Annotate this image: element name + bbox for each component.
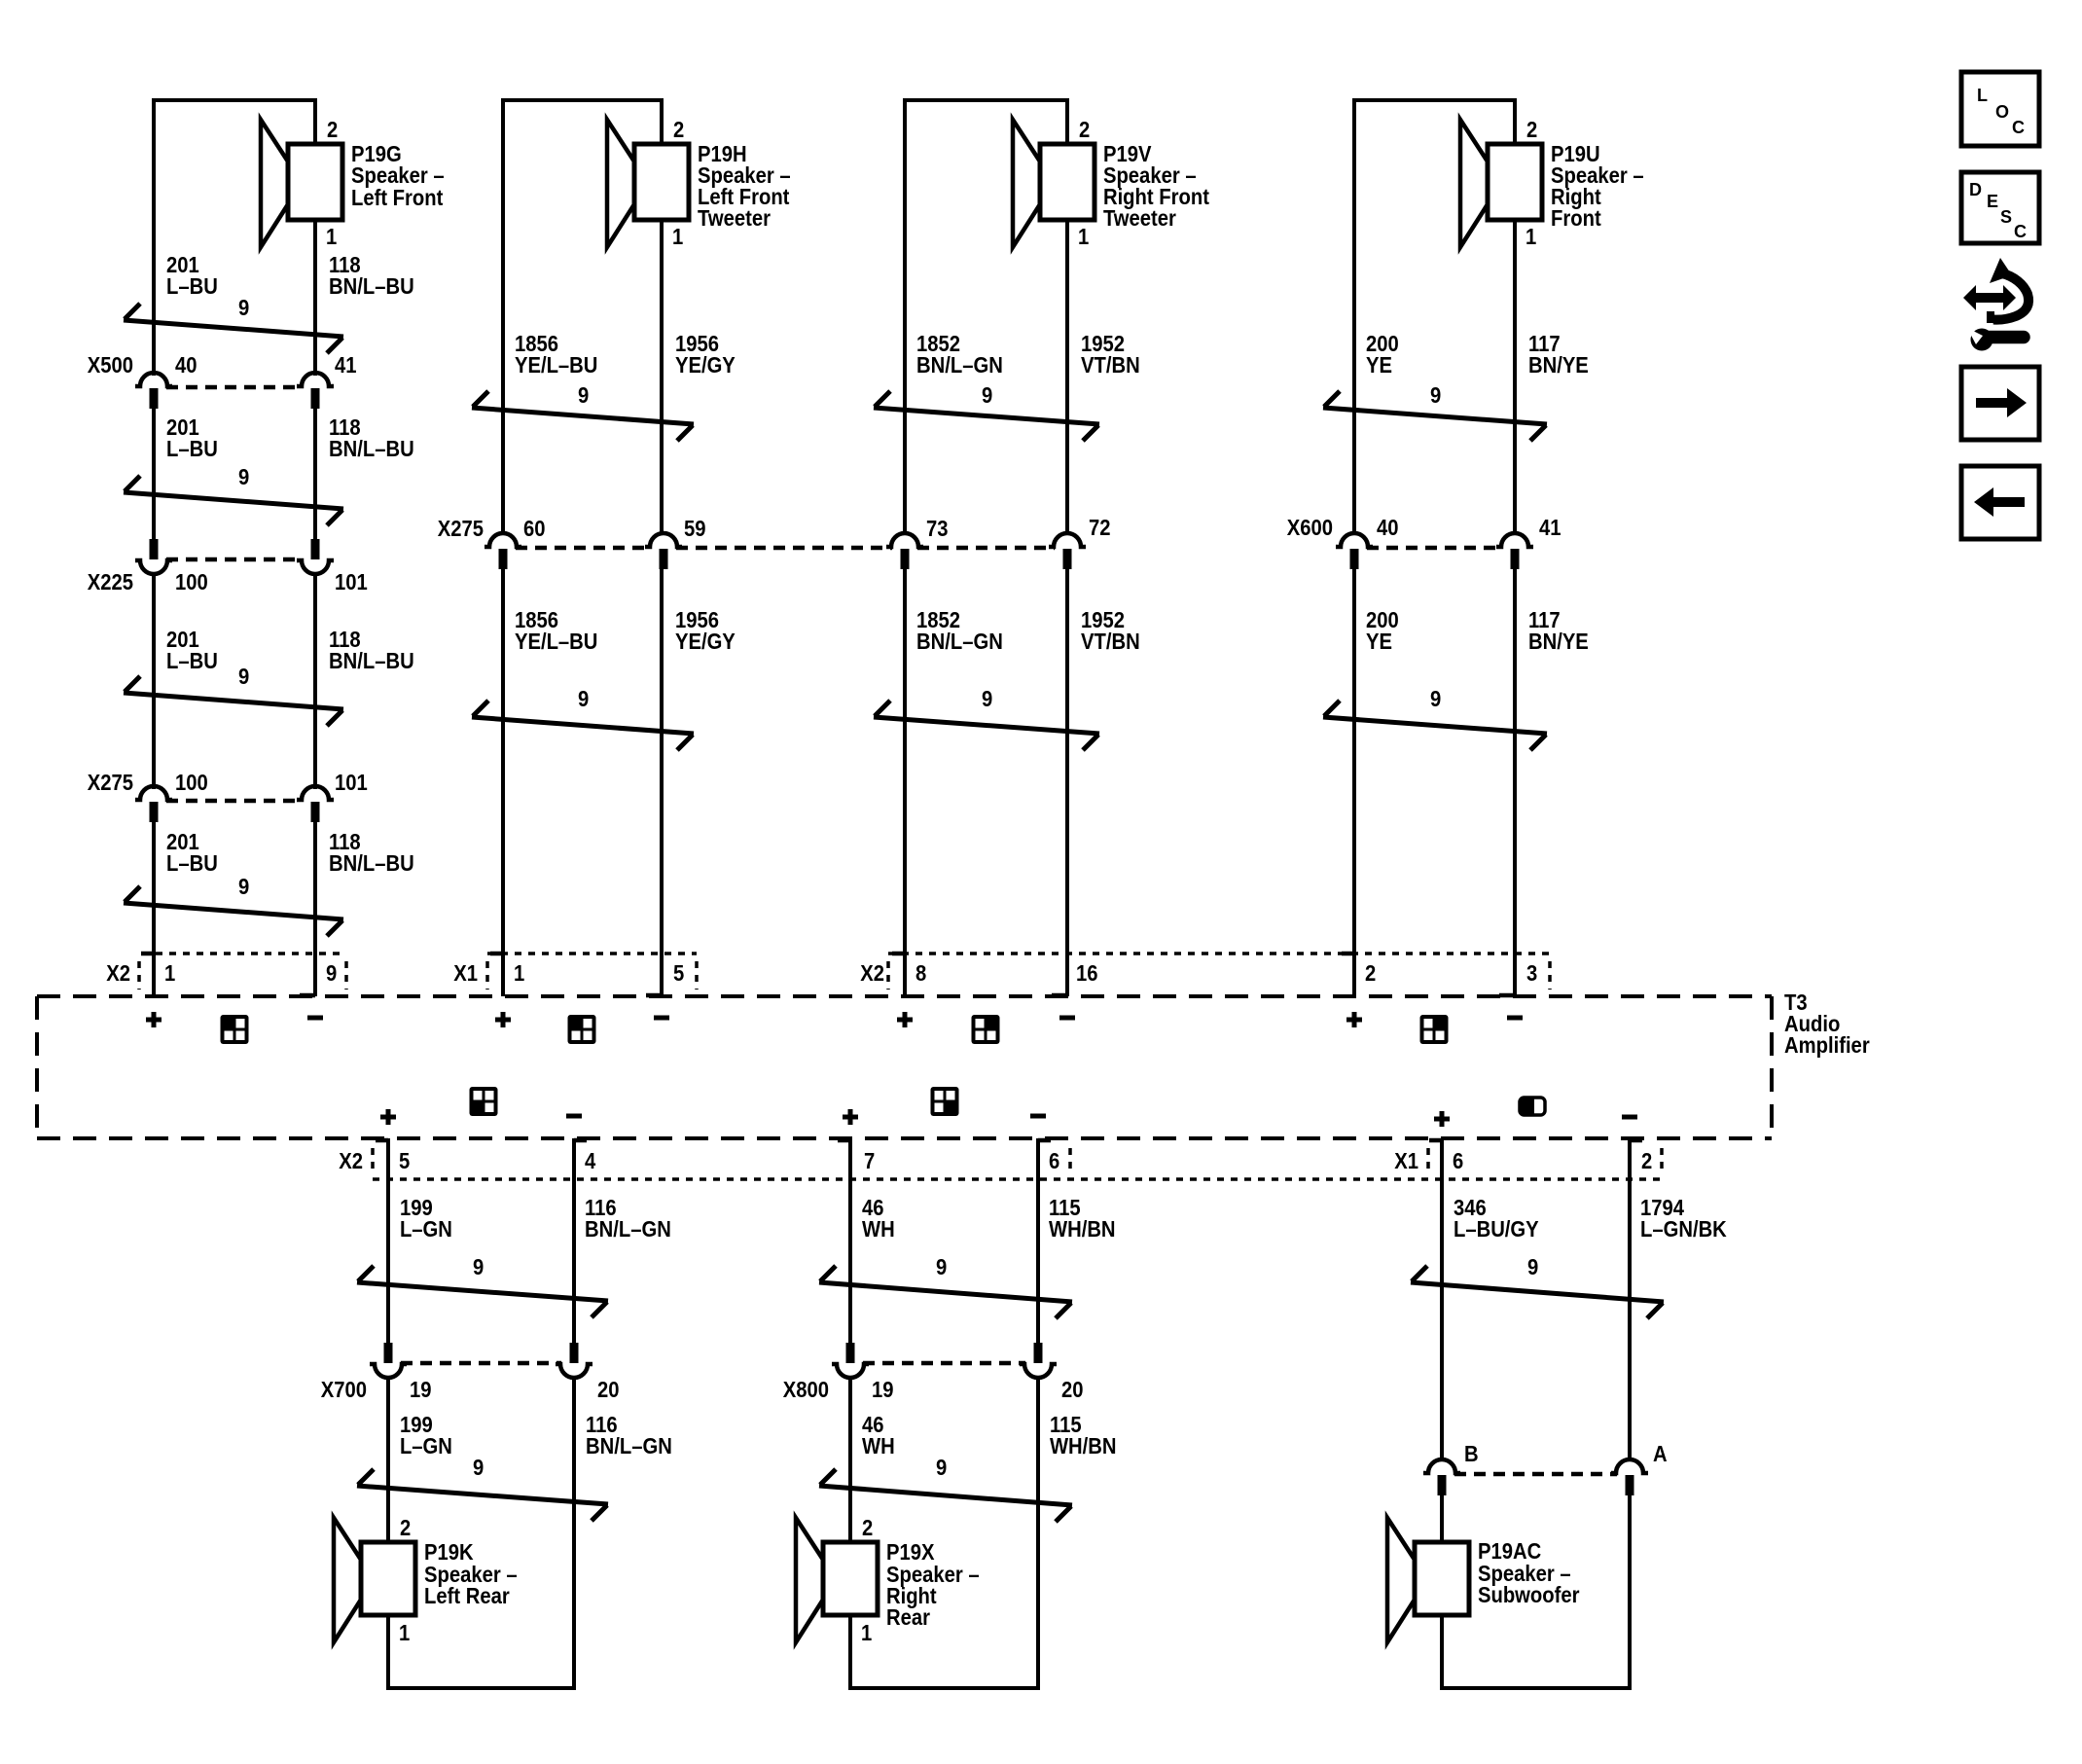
svg-text:6: 6 <box>1453 1148 1463 1174</box>
svg-text:1: 1 <box>164 960 175 987</box>
svg-text:C: C <box>2012 118 2025 137</box>
svg-text:BN/YE: BN/YE <box>1528 352 1589 378</box>
wire to amplifier + <box>1352 569 1356 996</box>
svg-text:9: 9 <box>936 1254 947 1280</box>
svg-text:9: 9 <box>473 1455 484 1481</box>
amplifier output + terminal <box>495 1012 511 1027</box>
svg-text:L–GN: L–GN <box>400 1433 452 1459</box>
wire bottom return <box>848 1686 1040 1690</box>
svg-text:1: 1 <box>672 224 683 250</box>
svg-text:1: 1 <box>514 960 524 987</box>
wire P19G into pin 2 <box>313 98 317 146</box>
svg-text:9: 9 <box>1430 686 1441 712</box>
svg-text:9: 9 <box>1527 1254 1538 1280</box>
speaker position icon right rear <box>931 1087 959 1116</box>
amplifier output - terminal <box>307 1016 323 1021</box>
svg-text:X700: X700 <box>321 1377 367 1403</box>
svg-text:YE/GY: YE/GY <box>675 352 736 378</box>
wire to amplifier - <box>1513 569 1517 996</box>
connector X500 female pin 41 <box>297 373 334 386</box>
svg-text:X1: X1 <box>453 960 478 987</box>
wire to amplifier - <box>1065 569 1069 996</box>
svg-text:L–BU/GY: L–BU/GY <box>1454 1216 1539 1242</box>
label P19X name <box>886 1539 980 1631</box>
svg-text:X800: X800 <box>783 1377 829 1403</box>
wire return <box>1036 1377 1040 1690</box>
legend DESC box <box>1961 172 2039 243</box>
svg-text:WH/BN: WH/BN <box>1049 1216 1116 1242</box>
svg-text:Left Front: Left Front <box>351 185 443 211</box>
connector X275 male pin 72 <box>1063 549 1072 569</box>
svg-text:9: 9 <box>326 960 337 987</box>
amplifier output - terminal <box>1507 1016 1523 1021</box>
audio amplifier T3 dashed box <box>37 996 1772 1138</box>
svg-text:BN/L–BU: BN/L–BU <box>329 273 414 300</box>
label P19H name <box>698 141 791 232</box>
wire 201 seg4 <box>152 822 156 996</box>
svg-text:1: 1 <box>1078 224 1089 250</box>
svg-text:9: 9 <box>578 382 589 409</box>
speaker position icon <box>972 1015 1000 1044</box>
legend back arrow box <box>1961 466 2039 539</box>
legend repair icon (double arrow and wrench) <box>1963 258 2028 351</box>
connector X275 female pin 60 <box>485 533 521 547</box>
svg-text:BN/L–GN: BN/L–GN <box>916 629 1003 655</box>
speaker P19H <box>607 120 689 247</box>
svg-text:X2: X2 <box>339 1148 363 1174</box>
connector X275 female pin 59 <box>645 533 682 547</box>
connector X275 female pin 101 <box>297 786 334 800</box>
speaker position icon <box>1420 1015 1449 1044</box>
wire 118 seg2 <box>313 409 317 539</box>
svg-text:E: E <box>1987 192 1998 211</box>
wire 1794 from amp <box>1628 1138 1632 1461</box>
wire top loop P19U <box>1352 98 1517 102</box>
wire return subwoofer <box>1628 1495 1632 1689</box>
speaker P19X <box>796 1518 878 1642</box>
connector X500 <box>166 385 303 390</box>
svg-text:41: 41 <box>1539 515 1561 541</box>
harness routing slash 9 <box>874 391 1099 441</box>
connector X275 <box>166 799 303 804</box>
harness routing slash 9 <box>124 676 343 726</box>
connector X275 male pin 73 <box>901 549 910 569</box>
svg-text:L: L <box>1977 86 1988 105</box>
svg-text:S: S <box>2000 207 2012 227</box>
svg-text:3: 3 <box>1526 960 1537 987</box>
connector X275 male pin 101 <box>311 802 320 822</box>
svg-text:9: 9 <box>578 686 589 712</box>
svg-text:BN/YE: BN/YE <box>1528 629 1589 655</box>
harness routing slash 9 <box>819 1266 1072 1318</box>
wire 118 seg3 <box>313 573 317 789</box>
amplifier top connector label boxes <box>139 954 1550 990</box>
svg-text:9: 9 <box>238 874 249 900</box>
wire bottom return <box>1440 1686 1632 1690</box>
svg-text:BN/L–GN: BN/L–GN <box>916 352 1003 378</box>
amplifier output + terminal <box>843 1109 858 1125</box>
harness routing slash 9 <box>472 391 694 441</box>
svg-text:Rear: Rear <box>886 1604 931 1631</box>
wire P19V pin2 side upper <box>903 98 907 535</box>
amplifier output - terminal <box>566 1114 582 1119</box>
svg-text:L–BU: L–BU <box>166 436 218 462</box>
connector X500 female pin 40 <box>135 373 172 386</box>
wire 201 seg2 <box>152 409 156 539</box>
wire from amp + output <box>848 1138 852 1343</box>
svg-text:1: 1 <box>399 1620 410 1646</box>
connector X225 <box>166 558 303 562</box>
svg-text:X225: X225 <box>88 569 133 595</box>
connector X600 male pin 40 <box>1350 549 1359 569</box>
speaker P19K <box>334 1518 415 1642</box>
connector B/A dashed link <box>1454 1472 1617 1477</box>
amplifier output - terminal <box>1030 1114 1046 1119</box>
svg-text:2: 2 <box>1641 1148 1652 1174</box>
speaker position icon <box>568 1015 596 1044</box>
wire P19H pin2 side upper <box>501 98 505 535</box>
harness routing slash 9 <box>357 1469 608 1521</box>
connector X275 row 2 dashed link <box>516 546 1055 551</box>
svg-text:9: 9 <box>238 295 249 321</box>
speaker position icon <box>221 1015 249 1044</box>
svg-text:100: 100 <box>175 569 208 595</box>
svg-text:2: 2 <box>673 117 684 143</box>
harness routing slash 9 <box>1323 391 1547 441</box>
svg-text:X275: X275 <box>438 516 484 542</box>
svg-text:VT/BN: VT/BN <box>1081 629 1140 655</box>
connector X275 male pin 59 <box>660 549 668 569</box>
connector X600 dashed link <box>1367 546 1502 551</box>
amplifier output - terminal <box>1622 1115 1637 1120</box>
svg-text:YE/GY: YE/GY <box>675 629 736 655</box>
svg-text:Tweeter: Tweeter <box>1103 205 1176 232</box>
label P19V name <box>1103 141 1209 232</box>
wire speaker pin 1 down <box>386 1616 390 1690</box>
svg-text:6: 6 <box>1049 1148 1059 1174</box>
harness routing slash 9 <box>124 476 343 525</box>
connector X600 female pin 41 <box>1496 533 1533 547</box>
amplifier output - terminal <box>1059 1016 1075 1021</box>
speaker P19V <box>1013 120 1095 247</box>
wire 346 from amp <box>1440 1138 1444 1461</box>
svg-text:20: 20 <box>597 1377 620 1403</box>
svg-text:X275: X275 <box>88 770 133 796</box>
connector X275 male pin 100 <box>150 802 159 822</box>
svg-text:1: 1 <box>861 1620 872 1646</box>
connector X275 female pin 100 <box>135 786 172 800</box>
connector X225 male pin 100 <box>150 539 159 559</box>
connector X700 male pin 19 <box>384 1343 393 1363</box>
svg-text:YE/L–BU: YE/L–BU <box>515 629 597 655</box>
connector X600 female pin 40 <box>1336 533 1373 547</box>
wire speaker pin 1 down <box>848 1616 852 1690</box>
svg-text:5: 5 <box>673 960 684 987</box>
label P19K name <box>424 1539 518 1609</box>
wire to speaker pin 2 <box>848 1377 852 1544</box>
connector X800 male pin 20 <box>1034 1343 1043 1363</box>
svg-text:O: O <box>1995 102 2009 122</box>
amplifier output + terminal <box>897 1012 913 1027</box>
connector X225 female pin 100 <box>135 560 172 574</box>
svg-text:L–BU: L–BU <box>166 850 218 877</box>
svg-text:WH: WH <box>862 1433 895 1459</box>
wire top loop P19H <box>501 98 664 102</box>
amplifier output - terminal <box>654 1016 669 1021</box>
wire from amp - output <box>572 1138 576 1343</box>
svg-text:101: 101 <box>335 770 368 796</box>
connector X275 male pin 60 <box>499 549 508 569</box>
wire to amplifier + <box>903 569 907 996</box>
connector female pin B <box>1423 1459 1460 1473</box>
svg-text:Tweeter: Tweeter <box>698 205 771 232</box>
wire to amplifier - <box>660 569 664 996</box>
speaker position icon left rear <box>470 1087 498 1116</box>
svg-text:1: 1 <box>1526 224 1536 250</box>
connector X800 female pin 19 <box>832 1364 869 1378</box>
speaker P19AC <box>1387 1518 1469 1642</box>
wire from amp - output <box>1036 1138 1040 1343</box>
svg-text:9: 9 <box>238 464 249 490</box>
harness routing slash 9 <box>124 304 343 353</box>
svg-text:1: 1 <box>326 224 337 250</box>
svg-text:2: 2 <box>1079 117 1090 143</box>
svg-text:X600: X600 <box>1287 515 1333 541</box>
wire 118 seg4 <box>313 822 317 996</box>
connector male pin A <box>1626 1475 1634 1495</box>
wire 201 seg3 <box>152 573 156 789</box>
svg-text:VT/BN: VT/BN <box>1081 352 1140 378</box>
connector X500 male pin 40 <box>150 388 159 409</box>
harness routing slash 9 <box>472 701 694 750</box>
harness routing slash 9 <box>819 1469 1072 1522</box>
connector X225 male pin 101 <box>311 539 320 559</box>
svg-text:16: 16 <box>1076 960 1098 987</box>
svg-text:59: 59 <box>684 516 706 542</box>
svg-text:L–BU: L–BU <box>166 273 218 300</box>
svg-text:Left Rear: Left Rear <box>424 1583 510 1609</box>
svg-text:40: 40 <box>1377 515 1399 541</box>
label P19G name <box>351 141 445 211</box>
svg-text:73: 73 <box>926 516 949 542</box>
harness routing slash 9 <box>1323 701 1547 750</box>
connector X700 female pin 20 <box>556 1364 592 1378</box>
wire return <box>572 1377 576 1690</box>
svg-text:9: 9 <box>238 664 249 690</box>
amplifier output + terminal <box>380 1109 396 1125</box>
wire from amp + output <box>386 1138 390 1343</box>
svg-text:60: 60 <box>523 516 546 542</box>
amplifier output + terminal <box>146 1012 162 1027</box>
connector X600 male pin 41 <box>1511 549 1520 569</box>
wire P19V into pin 2 <box>1065 98 1069 146</box>
svg-text:BN/L–GN: BN/L–GN <box>585 1216 671 1242</box>
svg-text:B: B <box>1464 1441 1479 1467</box>
svg-text:40: 40 <box>175 352 197 378</box>
svg-text:5: 5 <box>399 1148 410 1174</box>
subwoofer icon <box>1520 1098 1545 1115</box>
wire top loop P19G <box>152 98 317 102</box>
wire 118 upper <box>313 220 317 376</box>
harness routing slash 9 <box>124 886 343 936</box>
legend LOC box <box>1961 72 2039 146</box>
svg-text:2: 2 <box>1365 960 1376 987</box>
svg-text:Front: Front <box>1551 205 1601 232</box>
wire to subwoofer <box>1440 1495 1444 1545</box>
svg-text:X2: X2 <box>106 960 130 987</box>
svg-text:X500: X500 <box>88 352 133 378</box>
wire speaker minus upper <box>1513 220 1517 534</box>
svg-text:WH/BN: WH/BN <box>1050 1433 1117 1459</box>
wire speaker minus upper <box>660 220 664 534</box>
wire to speaker pin 2 <box>386 1377 390 1544</box>
svg-text:L–GN: L–GN <box>400 1216 452 1242</box>
svg-text:WH: WH <box>862 1216 895 1242</box>
svg-text:BN/L–BU: BN/L–BU <box>329 648 414 674</box>
svg-text:100: 100 <box>175 770 208 796</box>
connector X225 female pin 101 <box>297 560 334 574</box>
wire speaker minus upper <box>1065 220 1069 534</box>
svg-text:19: 19 <box>872 1377 894 1403</box>
connector X275 female pin 73 <box>886 533 923 547</box>
connector male pin B <box>1438 1475 1447 1495</box>
svg-text:X1: X1 <box>1394 1148 1418 1174</box>
connector female pin A <box>1611 1459 1648 1473</box>
svg-text:2: 2 <box>1526 117 1537 143</box>
svg-text:L–BU: L–BU <box>166 648 218 674</box>
connector X700 male pin 20 <box>570 1343 579 1363</box>
connector X800 female pin 20 <box>1020 1364 1057 1378</box>
svg-text:9: 9 <box>982 686 992 712</box>
speaker P19G <box>261 120 342 247</box>
speaker P19U <box>1460 120 1542 247</box>
svg-text:BN/L–GN: BN/L–GN <box>586 1433 672 1459</box>
connector X700 dashed link <box>401 1361 561 1366</box>
connector X275 female pin 72 <box>1049 533 1086 547</box>
label T3 Audio Amplifier <box>1784 990 1870 1059</box>
svg-text:72: 72 <box>1089 515 1111 541</box>
svg-text:41: 41 <box>335 352 357 378</box>
svg-text:BN/L–BU: BN/L–BU <box>329 850 414 877</box>
wire P19U pin2 side upper <box>1352 98 1356 535</box>
svg-text:9: 9 <box>1430 382 1441 409</box>
label P19AC name <box>1478 1538 1580 1608</box>
svg-text:2: 2 <box>400 1515 411 1541</box>
amplifier output + terminal <box>1434 1111 1450 1127</box>
amplifier top pin brackets <box>141 954 1515 995</box>
svg-text:101: 101 <box>335 569 368 595</box>
svg-text:L–GN/BK: L–GN/BK <box>1640 1216 1727 1242</box>
svg-text:19: 19 <box>410 1377 432 1403</box>
connector X800 male pin 19 <box>846 1343 855 1363</box>
wire to amplifier + <box>501 569 505 996</box>
harness routing slash 9 <box>1411 1266 1664 1318</box>
label P19U name <box>1551 141 1644 232</box>
svg-text:C: C <box>2014 222 2027 241</box>
legend forward arrow box <box>1961 367 2039 440</box>
svg-text:2: 2 <box>327 117 338 143</box>
svg-text:8: 8 <box>915 960 926 987</box>
connector X800 dashed link <box>863 1361 1025 1366</box>
svg-text:9: 9 <box>936 1455 947 1481</box>
harness routing slash 9 <box>874 701 1099 750</box>
connector X700 female pin 19 <box>370 1364 407 1378</box>
svg-text:Amplifier: Amplifier <box>1784 1032 1870 1059</box>
wire P19H into pin 2 <box>660 98 664 146</box>
connector X500 male pin 41 <box>311 388 320 409</box>
svg-text:20: 20 <box>1061 1377 1084 1403</box>
amplifier bottom connector label boxes <box>373 1148 1662 1179</box>
svg-text:2: 2 <box>862 1515 873 1541</box>
amplifier output + terminal <box>1346 1012 1362 1027</box>
wire top loop P19V <box>903 98 1069 102</box>
wire P19U into pin 2 <box>1513 98 1517 146</box>
svg-text:Subwoofer: Subwoofer <box>1478 1582 1580 1608</box>
svg-text:YE/L–BU: YE/L–BU <box>515 352 597 378</box>
svg-text:7: 7 <box>864 1148 875 1174</box>
amplifier bottom pin brackets <box>376 1138 1642 1143</box>
svg-text:X2: X2 <box>860 960 884 987</box>
svg-text:9: 9 <box>473 1254 484 1280</box>
svg-text:BN/L–BU: BN/L–BU <box>329 436 414 462</box>
wire bottom return <box>386 1686 576 1690</box>
harness routing slash 9 <box>357 1266 608 1317</box>
svg-text:D: D <box>1969 180 1982 199</box>
wire speaker pin 1 down <box>1440 1616 1444 1690</box>
svg-text:A: A <box>1653 1441 1668 1467</box>
svg-text:4: 4 <box>585 1148 595 1174</box>
svg-text:9: 9 <box>982 382 992 409</box>
svg-text:YE: YE <box>1366 352 1392 378</box>
wire P19G pin2 side upper <box>152 98 156 376</box>
svg-text:YE: YE <box>1366 629 1392 655</box>
